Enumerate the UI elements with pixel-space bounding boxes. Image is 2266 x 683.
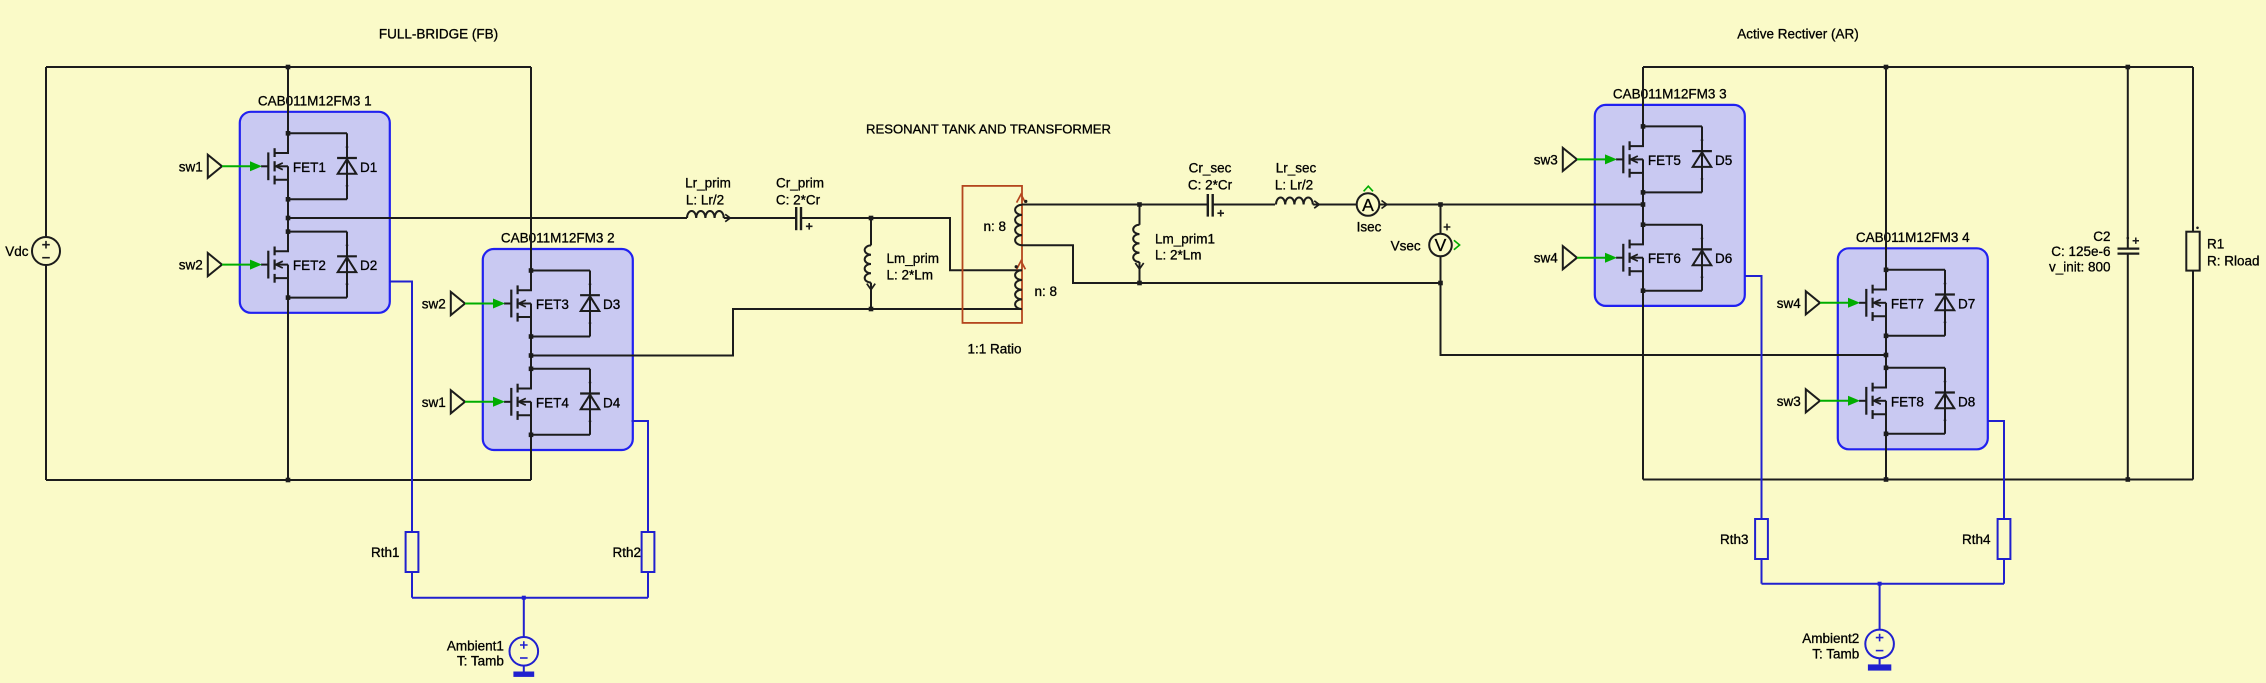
svg-text:A: A (1362, 195, 1374, 215)
transistor FET1 source rail (288, 198, 347, 200)
svg-text:D7: D7 (1958, 296, 1975, 311)
node FET8 source (1884, 432, 1889, 437)
transistor FET4 source rail (531, 434, 590, 436)
wire Cr_sec to Lr_sec (1213, 204, 1275, 206)
wire module2 thermal stub (632, 421, 649, 532)
input port sw4 for FET7 (1806, 291, 1820, 314)
node FET6 drain (1641, 222, 1646, 227)
inductor Lr_sec (1276, 198, 1313, 205)
node FET6 source (1641, 288, 1646, 293)
input port sw3 for FET8 (1806, 389, 1820, 412)
svg-text:Rth4: Rth4 (1962, 532, 1991, 547)
svg-text:1:1 Ratio: 1:1 Ratio (968, 342, 1022, 357)
gate wire sw4 -> FET6 (1577, 257, 1606, 259)
voltmeter Vsec (1429, 234, 1452, 257)
svg-text:sw4: sw4 (1777, 296, 1801, 311)
svg-text:FET6: FET6 (1648, 251, 1681, 266)
ammeter Isec direction arrow (1364, 186, 1373, 191)
gate wire sw1 -> FET4 (465, 401, 494, 403)
thermal resistor Rth3 (1755, 519, 1768, 559)
svg-text:Cr_sec: Cr_sec (1189, 161, 1232, 176)
transformer secondary polarity dot (1024, 200, 1027, 203)
input port sw1 for FET1 (208, 155, 222, 178)
svg-text:L: Lr/2: L: Lr/2 (1275, 178, 1313, 193)
svg-text:RESONANT TANK AND TRANSFORMER: RESONANT TANK AND TRANSFORMER (866, 122, 1111, 137)
transistor FET5 source rail (1643, 191, 1702, 193)
wire R1 bottom lead (2192, 271, 2194, 480)
svg-text:Rth1: Rth1 (371, 545, 400, 560)
input port sw2 for FET2 (208, 253, 222, 276)
node AR leg4 midpoint (1884, 353, 1889, 358)
svg-text:FET2: FET2 (293, 258, 326, 273)
thermal ground (Ambient2) (1879, 658, 1881, 664)
thermal resistor Rth1 (406, 532, 419, 572)
wire FB leg2 chain (FET3/FET4) (530, 67, 532, 480)
wire FB thermal rail (412, 597, 648, 599)
wire Rth1 bottom lead (411, 572, 413, 598)
transistor FET3 (MOSFET) (504, 303, 511, 305)
wire C2 bottom lead (2127, 254, 2129, 480)
node FET2 source (286, 295, 291, 300)
voltage source Vdc (32, 237, 60, 265)
input port sw2 for FET3 (451, 292, 465, 315)
capacitor C2 (2118, 248, 2140, 250)
transistor FET2 (MOSFET) (261, 264, 268, 266)
wire Ambient2 lead (1879, 584, 1881, 630)
transistor FET1 (MOSFET) (261, 165, 268, 167)
node FET1 source (286, 197, 291, 202)
transistor FET1 drain rail (288, 132, 347, 134)
wire Lr_prim to Cr_prim (724, 217, 796, 219)
node FB top rail / leg1 (286, 65, 291, 70)
svg-text:v_init: 800: v_init: 800 (2049, 260, 2111, 275)
input port sw4 for FET6 (1563, 246, 1577, 269)
wire AR top rail (1643, 66, 2193, 68)
transformer core box (963, 186, 1023, 323)
transistor FET8 (MOSFET) (1859, 400, 1866, 402)
transformer primary winding direction arrow (1017, 261, 1026, 269)
transistor FET6 drain rail (1643, 224, 1702, 226)
input port sw3 for FET5 (1563, 148, 1577, 171)
wire Rth3 bottom lead (1761, 559, 1763, 584)
svg-text:sw4: sw4 (1534, 251, 1558, 266)
transistor FET7 source rail (1886, 335, 1945, 337)
voltmeter Vsec direction arrow (1454, 240, 1460, 249)
svg-text:C: 125e-6: C: 125e-6 (2051, 244, 2110, 259)
wire Rth4 bottom lead (2003, 559, 2005, 584)
svg-text:Rth3: Rth3 (1720, 532, 1749, 547)
transformer secondary winding (top, n: 8) (1021, 204, 1023, 207)
gate wire sw2 -> FET3 (465, 303, 494, 305)
transformer secondary winding direction arrow (1017, 194, 1026, 202)
node Lm_prim bottom (869, 307, 874, 312)
wire FB leg1 chain (FET1/FET2) (287, 67, 289, 480)
gate wire sw1 -> FET1 (222, 165, 251, 167)
wire Cr_prim to transformer corner (801, 218, 1022, 270)
svg-text:sw2: sw2 (179, 258, 203, 273)
transformer primary winding (bottom, n: 8) (1015, 270, 1022, 309)
node leg1 midpoint (286, 216, 291, 221)
node leg2 midpoint (529, 353, 534, 358)
svg-text:n: 8: n: 8 (1035, 284, 1058, 299)
diode D8 (1944, 368, 1946, 434)
svg-text:Lr_prim: Lr_prim (685, 176, 731, 191)
svg-text:Lm_prim: Lm_prim (887, 251, 940, 266)
transistor FET6 source rail (1643, 290, 1702, 292)
diode D4 (589, 369, 591, 435)
capacitor Cr_sec (1207, 194, 1209, 217)
wire Vdc top lead (45, 67, 47, 237)
node AR bottom rail / leg4 (1884, 477, 1889, 482)
svg-text:CAB011M12FM3 2: CAB011M12FM3 2 (501, 231, 615, 246)
node Lm_prim1 top (1137, 202, 1142, 207)
wire secondary bottom to AR leg4 midpoint (1441, 283, 1887, 355)
half-bridge module CAB011M12FM3 4 body (1838, 248, 1988, 449)
node Lm_prim1 bottom (1137, 281, 1142, 286)
wire FB bottom rail (46, 479, 531, 481)
svg-text:R: Rload: R: Rload (2207, 254, 2260, 269)
node FET7 source (1884, 334, 1889, 339)
svg-text:sw3: sw3 (1777, 394, 1801, 409)
half-bridge module CAB011M12FM3 2 body (483, 249, 633, 450)
transistor FET7 drain rail (1886, 269, 1945, 271)
svg-text:Cr_prim: Cr_prim (776, 176, 824, 191)
gate wire sw4 -> FET7 (1820, 302, 1849, 304)
gate wire sw3 -> FET5 (1577, 158, 1606, 160)
diode D1 (346, 133, 348, 199)
wire Isec to AR leg3 midpoint (1379, 204, 1643, 206)
wire Vsec top lead (1440, 205, 1442, 234)
node Lm_prim top (869, 216, 874, 221)
transistor FET8 drain rail (1886, 367, 1945, 369)
thermal source Ambient2 (1865, 630, 1894, 659)
svg-text:D5: D5 (1715, 153, 1732, 168)
capacitor Cr_prim (795, 207, 797, 230)
node FET3 drain (529, 268, 534, 273)
svg-text:FET1: FET1 (293, 160, 326, 175)
svg-text:Ambient2: Ambient2 (1802, 631, 1859, 646)
node FET8 drain (1884, 366, 1889, 371)
wire module4 thermal stub (1988, 421, 2004, 519)
svg-text:D2: D2 (360, 258, 377, 273)
inductor Lm_prim1 (1139, 205, 1141, 225)
wire module3 thermal stub (1745, 276, 1761, 519)
transistor FET5 drain rail (1643, 125, 1702, 127)
wire primary top: leg1 midpoint to Lr_prim (288, 217, 687, 219)
node FET5 drain (1641, 124, 1646, 129)
svg-text:CAB011M12FM3 1: CAB011M12FM3 1 (258, 93, 372, 108)
ammeter Isec (1357, 193, 1380, 216)
transformer primary polarity dot (1015, 265, 1018, 268)
wire secondary top: transformer to Cr_sec (1022, 204, 1208, 206)
wire Lr_sec to Isec (1313, 204, 1357, 206)
diode D2 (346, 232, 348, 298)
wire module1 thermal stub (390, 282, 412, 533)
svg-text:sw1: sw1 (179, 159, 203, 174)
svg-text:C: 2*Cr: C: 2*Cr (776, 193, 821, 208)
svg-text:FET5: FET5 (1648, 153, 1681, 168)
wire AR leg3 chain (FET5/FET6) (1642, 67, 1644, 480)
node FET4 drain (529, 367, 534, 372)
thermal source Ambient1 (510, 637, 539, 666)
node FET7 drain (1884, 268, 1889, 273)
wire Vdc bottom lead (45, 265, 47, 480)
svg-text:Vsec: Vsec (1391, 239, 1421, 254)
svg-text:sw1: sw1 (422, 395, 446, 410)
resistor R1 (2186, 232, 2199, 271)
node FB thermal rail / Ambient1 (522, 596, 526, 600)
wire AR leg4 chain (FET7/FET8) (1885, 67, 1887, 480)
wire AR bottom rail (1643, 479, 2193, 481)
svg-text:T: Tamb: T: Tamb (457, 654, 504, 669)
svg-text:R1: R1 (2207, 237, 2224, 252)
transistor FET4 drain rail (531, 368, 590, 370)
svg-text:Ambient1: Ambient1 (447, 639, 504, 654)
diode D6 (1701, 225, 1703, 291)
wire AR thermal rail (1762, 583, 2005, 585)
transistor FET7 (MOSFET) (1859, 302, 1866, 304)
thermal resistor Rth2 (642, 532, 655, 572)
inductor Lm_prim (870, 218, 872, 245)
wire C2 top lead (2127, 67, 2129, 248)
transistor FET3 drain rail (531, 270, 590, 272)
svg-text:L: Lr/2: L: Lr/2 (686, 193, 724, 208)
transistor FET2 drain rail (288, 231, 347, 233)
transistor FET5 (MOSFET) (1616, 158, 1623, 160)
svg-text:Lm_prim1: Lm_prim1 (1155, 231, 1215, 246)
svg-text:FET3: FET3 (536, 297, 569, 312)
diode D3 (589, 271, 591, 337)
transistor FET3 source rail (531, 336, 590, 338)
diode D7 (1944, 270, 1946, 336)
transistor FET6 (MOSFET) (1616, 257, 1623, 259)
wire Rth2 bottom lead (647, 572, 649, 598)
svg-text:FULL-BRIDGE (FB): FULL-BRIDGE (FB) (379, 27, 498, 42)
svg-text:D4: D4 (603, 395, 621, 410)
svg-text:n: 8: n: 8 (984, 219, 1007, 234)
svg-text:L: 2*Lm: L: 2*Lm (1155, 248, 1202, 263)
wire primary bottom: transformer to leg2 midpoint (531, 309, 1022, 356)
svg-text:C: 2*Cr: C: 2*Cr (1188, 178, 1233, 193)
inductor Lr_prim (687, 211, 724, 218)
svg-text:Lr_sec: Lr_sec (1276, 161, 1317, 176)
node AR leg3 midpoint (1641, 202, 1646, 207)
wire Ambient1 lead (523, 598, 525, 637)
node FET2 drain (286, 229, 291, 234)
svg-text:Active Rectiver (AR): Active Rectiver (AR) (1737, 27, 1859, 42)
svg-text:D3: D3 (603, 297, 620, 312)
node Vsec top tap (1438, 202, 1443, 207)
half-bridge module CAB011M12FM3 1 body (240, 112, 390, 313)
svg-text:Rth2: Rth2 (612, 545, 641, 560)
svg-text:FET4: FET4 (536, 395, 569, 410)
transistor FET2 source rail (288, 297, 347, 299)
svg-text:V: V (1435, 235, 1447, 255)
voltmeter Vsec plus mark (1444, 224, 1451, 231)
input port sw1 for FET4 (451, 390, 465, 413)
node AR top rail / C2 (2126, 65, 2131, 70)
wire FB top rail (46, 66, 531, 68)
transistor FET4 (MOSFET) (504, 401, 511, 403)
gate wire sw2 -> FET2 (222, 264, 251, 266)
diode D5 (1701, 126, 1703, 192)
svg-text:L: 2*Lm: L: 2*Lm (887, 267, 934, 282)
thermal resistor Rth4 (1998, 519, 2011, 559)
svg-text:D1: D1 (360, 160, 377, 175)
node AR bottom rail / C2 (2126, 477, 2131, 482)
node FET3 source (529, 334, 534, 339)
svg-text:sw2: sw2 (422, 297, 446, 312)
thermal ground (Ambient1) (523, 666, 525, 672)
svg-text:FET7: FET7 (1891, 296, 1924, 311)
wire secondary bottom: transformer return (1022, 245, 1441, 283)
svg-text:D8: D8 (1958, 394, 1975, 409)
node FB bottom rail / leg1 (286, 478, 291, 483)
svg-text:CAB011M12FM3 4: CAB011M12FM3 4 (1856, 230, 1970, 245)
node AR thermal rail / Ambient2 (1878, 582, 1882, 586)
svg-text:FET8: FET8 (1891, 394, 1924, 409)
svg-text:CAB011M12FM3 3: CAB011M12FM3 3 (1613, 86, 1727, 101)
node Vsec bottom tap (1438, 281, 1443, 286)
wire Vsec bottom lead (1440, 256, 1442, 283)
svg-text:C2: C2 (2093, 229, 2110, 244)
node FET1 drain (286, 131, 291, 136)
svg-text:D6: D6 (1715, 251, 1732, 266)
svg-text:T: Tamb: T: Tamb (1812, 647, 1859, 662)
node FET5 source (1641, 190, 1646, 195)
svg-text:Vdc: Vdc (5, 244, 29, 259)
svg-text:sw3: sw3 (1534, 152, 1558, 167)
wire R1 top lead (2192, 67, 2194, 232)
transistor FET8 source rail (1886, 433, 1945, 435)
node AR top rail / leg4 (1884, 65, 1889, 70)
half-bridge module CAB011M12FM3 3 body (1595, 105, 1745, 306)
node FET4 source (529, 433, 534, 438)
gate wire sw3 -> FET8 (1820, 400, 1849, 402)
svg-text:Isec: Isec (1357, 220, 1382, 235)
